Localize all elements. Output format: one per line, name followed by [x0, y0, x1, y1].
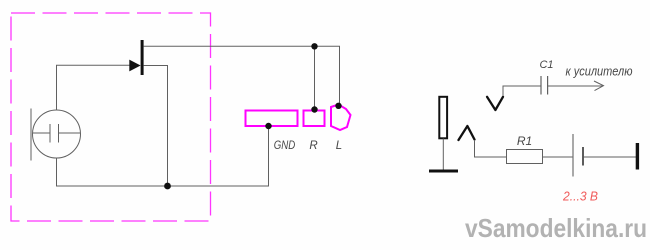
pad R (solder lug): [304, 111, 325, 127]
node: drain junction dot: [311, 43, 317, 49]
label R: [309, 140, 317, 152]
label "к усилителю": [566, 64, 633, 79]
wire: V contact up to C1: [503, 86, 541, 96]
svg-text:R: R: [309, 140, 317, 152]
svg-text:C1: C1: [539, 59, 553, 71]
wire: R1 to battery: [543, 156, 573, 158]
wire: mic top to FET gate: [57, 65, 130, 110]
node: source/bottom-rail junction dot: [164, 183, 171, 190]
svg-text:L: L: [336, 140, 342, 152]
svg-text:vSamodelkina.ru: vSamodelkina.ru: [465, 213, 647, 243]
svg-text:к усилителю: к усилителю: [566, 64, 633, 79]
label R1: [517, 134, 532, 148]
microphone capsule BM1 (circle): [33, 110, 81, 158]
wire: source down to bottom rail: [144, 66, 168, 187]
jack plug sleeve XS1 (rectangle): [439, 97, 447, 139]
wire: battery to end bar: [584, 156, 636, 158]
FET gate arrow: [129, 60, 140, 72]
wire: junction down to R pad: [314, 46, 316, 109]
wire: lower contact to R1: [475, 140, 507, 157]
svg-text:2...3 В: 2...3 В: [562, 190, 598, 204]
svg-text:GND: GND: [274, 140, 296, 152]
pad L (solder lug polygon): [331, 105, 351, 131]
jack contact V (upper spring): [487, 97, 503, 110]
battery GB1 long plate (+): [572, 134, 574, 177]
capacitor C1 plates: [541, 76, 548, 95]
ground symbol: [429, 170, 458, 173]
wire: bottom rail (mic bottom to GND pad): [57, 126, 269, 186]
node: R pad dot: [311, 106, 317, 112]
wire: C1 to amplifier arrow: [548, 85, 603, 87]
capacitor element inside microphone: [33, 124, 80, 143]
label C1: [539, 59, 553, 71]
svg-text:R1: R1: [517, 134, 532, 148]
label L: [336, 140, 342, 152]
terminal end bar: [636, 143, 639, 170]
label GND: [274, 140, 296, 152]
wire: sleeve to ground: [442, 139, 444, 171]
microphone membrane line: [30, 109, 32, 161]
node: L pad dot: [335, 103, 341, 109]
resistor R1: [507, 150, 543, 164]
label "2...3 В" (battery voltage, red): [562, 190, 598, 204]
watermark vSamodelkina.ru: [465, 213, 647, 243]
node: GND pad dot: [265, 123, 271, 129]
battery GB1 short plate (-): [582, 147, 584, 166]
wire: drain to junction and L pad: [144, 46, 340, 106]
arrowhead (to amplifier): [594, 81, 604, 91]
FET transistor VT1 (internal) gate bar: [141, 40, 144, 75]
jack contact ^ (lower spring): [459, 126, 475, 140]
enclosure dashed box (mic capsule boundary): [11, 13, 211, 221]
pad GND (solder lug): [246, 111, 298, 127]
